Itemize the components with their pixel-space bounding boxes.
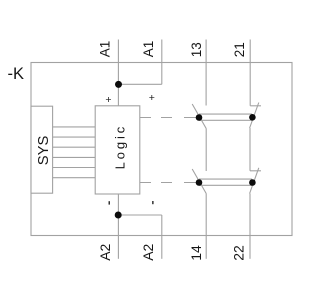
Logic box — [95, 106, 140, 194]
contact pivot dot upper-left — [196, 114, 203, 121]
wire terminal A2 second — [161, 215, 163, 259]
contact pivot dot lower-right — [249, 179, 256, 186]
wire terminal 14 — [205, 194, 207, 259]
junction dot A2 — [115, 212, 122, 219]
wire tee A1 horizontal — [118, 83, 161, 85]
wire SYS-Logic 1 — [53, 126, 96, 128]
svg-text:SYS: SYS — [36, 136, 52, 166]
svg-text:13: 13 — [189, 42, 204, 57]
relay enclosure box -K — [31, 63, 292, 236]
svg-text:A1: A1 — [141, 41, 156, 58]
wire SYS-Logic 2 — [53, 136, 96, 138]
wire SYS-Logic 6 — [53, 177, 96, 179]
svg-text:Logic: Logic — [113, 124, 128, 170]
wire terminal 13 down to contact — [205, 40, 207, 106]
polarity minus mark left — [109, 201, 111, 204]
svg-text:A2: A2 — [140, 243, 156, 260]
mechanical linkage line upper pair top — [199, 113, 252, 115]
dashed actuation line upper — [140, 117, 196, 119]
mechanical linkage line lower pair top — [199, 178, 252, 180]
contact K blade NO top (13-14) — [192, 104, 206, 129]
svg-text:14: 14 — [188, 245, 204, 261]
contact K blade NO bottom (13-14) — [192, 169, 206, 194]
SYS box — [31, 106, 53, 193]
wire SYS-Logic 4 — [53, 156, 96, 158]
svg-text:21: 21 — [232, 42, 247, 57]
contact NC stop bar bottom (22) — [250, 170, 261, 172]
junction dot A1 — [115, 81, 122, 88]
svg-text:+: + — [105, 94, 111, 106]
mechanical linkage line upper pair bottom — [199, 119, 252, 121]
wire terminal 22 — [249, 194, 251, 259]
dashed actuation line lower — [140, 182, 196, 184]
wire between contacts 13-14 — [205, 129, 207, 172]
wire between contacts 21-22 — [249, 128, 251, 171]
wire terminal A1 first, down to Logic top — [117, 40, 119, 106]
wire terminal A1 second, down to tee — [161, 40, 163, 85]
polarity minus mark right — [152, 201, 154, 204]
svg-text:A2: A2 — [97, 243, 113, 260]
contact NC stop bar top (21) — [250, 105, 261, 107]
contact K blade NC bottom (21-22) — [250, 168, 259, 194]
contact pivot dot lower-left — [196, 179, 203, 186]
wire SYS-Logic 5 — [53, 167, 96, 169]
svg-text:-K: -K — [8, 65, 25, 83]
contact pivot dot upper-right — [249, 114, 256, 121]
wire SYS-Logic 3 — [53, 146, 96, 148]
mechanical linkage line lower pair bottom — [199, 184, 252, 186]
wire A2 first, Logic bottom to terminal — [117, 194, 119, 259]
svg-text:22: 22 — [231, 245, 247, 261]
wire terminal 21 down to contact — [249, 40, 251, 106]
svg-text:+: + — [149, 92, 155, 104]
contact K blade NC top (21-22) — [250, 103, 259, 129]
svg-text:A1: A1 — [98, 41, 113, 58]
wire tee A2 horizontal — [118, 214, 161, 216]
